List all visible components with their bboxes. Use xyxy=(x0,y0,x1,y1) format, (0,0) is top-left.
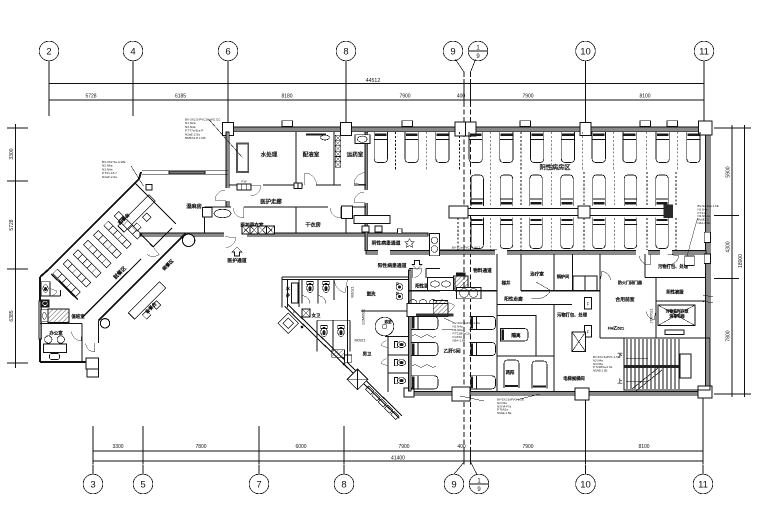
wall x334 xyxy=(333,132,335,185)
junction dots xyxy=(301,326,345,365)
sink block xyxy=(332,350,352,363)
svg-text:锅炉间: 锅炉间 xyxy=(557,273,570,280)
label waste pack 1 xyxy=(658,263,689,270)
cable tag hall xyxy=(435,245,497,249)
dim text 7800 xyxy=(726,330,732,341)
svg-text:物料通道: 物料通道 xyxy=(473,267,492,274)
label hepatitis ward xyxy=(443,348,460,355)
isolation room xyxy=(497,316,536,357)
grid bubble 11 top xyxy=(694,41,714,61)
segment dimension line bottom xyxy=(93,447,703,455)
canteen NE wall xyxy=(135,183,176,224)
wing west wall xyxy=(39,269,49,362)
door water treatment xyxy=(250,185,261,196)
svg-text:F: F xyxy=(587,302,590,307)
grid bubble 5 bottom xyxy=(133,465,153,494)
svg-text:5: 5 xyxy=(140,479,145,490)
door dispensing xyxy=(305,173,317,185)
dim text 5728 left xyxy=(9,219,15,230)
svg-text:400: 400 xyxy=(457,444,466,450)
room label medicine xyxy=(347,151,364,159)
nurse desk xyxy=(354,216,390,233)
room label staff corridor xyxy=(260,198,282,206)
male wc cubicles xyxy=(381,337,409,392)
dim text 7900 xyxy=(399,94,410,100)
door arc treatment xyxy=(532,282,551,299)
label material passage xyxy=(473,267,492,274)
svg-text:隔离: 隔离 xyxy=(511,332,521,339)
svg-text:医护通道: 医护通道 xyxy=(227,257,246,264)
wall x521 xyxy=(520,254,522,291)
svg-text:防火门闭门器: 防火门闭门器 xyxy=(618,279,642,285)
svg-text:10: 10 xyxy=(580,479,591,490)
svg-text:合用前室: 合用前室 xyxy=(615,296,634,303)
svg-text:N6AE-1.5E: N6AE-1.5E xyxy=(497,411,512,415)
service elevator x-box xyxy=(658,305,695,335)
wc cubicles north xyxy=(302,280,334,304)
label positive corridor xyxy=(504,296,523,303)
wall x296 lower xyxy=(295,207,297,233)
prep counter xyxy=(128,282,171,325)
wall pilaster 4 xyxy=(640,121,651,127)
svg-text:8180: 8180 xyxy=(281,94,292,100)
label door M0921 xyxy=(355,339,366,343)
label dining area xyxy=(111,264,128,281)
grid line 2 xyxy=(48,61,50,116)
dim text 6185 xyxy=(175,94,186,100)
exterior wall top xyxy=(223,127,712,132)
svg-text:BM5X4-P.J.CB: BM5X4-P.J.CB xyxy=(185,136,205,140)
grid bubble 2 top xyxy=(39,41,59,61)
dim text 18000 xyxy=(738,254,744,268)
svg-text:浴至: 浴至 xyxy=(384,319,392,324)
svg-text:电梯候梯间: 电梯候梯间 xyxy=(563,375,584,382)
column grid11 bottom xyxy=(698,386,712,398)
svg-text:JTM7021: JTM7021 xyxy=(650,309,654,324)
room label staff changing xyxy=(241,222,264,229)
flue diamond xyxy=(278,313,299,334)
grid line 1/9 dashed xyxy=(471,60,476,464)
wall box 1 xyxy=(704,232,710,242)
svg-text:值班室: 值班室 xyxy=(71,313,85,320)
double door positive corridor xyxy=(413,269,426,278)
svg-text:N5AB-1.5E: N5AB-1.5E xyxy=(593,369,608,373)
svg-text:M0921: M0921 xyxy=(355,339,366,343)
dim text 3300 bottom xyxy=(112,444,123,450)
grid bubble 1/9 top xyxy=(468,41,488,61)
grid bubble 9 bottom xyxy=(444,462,464,494)
label elevator model xyxy=(650,309,654,324)
office room xyxy=(40,324,82,363)
round column wing east xyxy=(182,234,194,246)
section top wall xyxy=(282,277,409,280)
right dimension segment line xyxy=(714,125,739,397)
corridor label staff passage xyxy=(225,237,247,265)
stair break line xyxy=(632,368,662,391)
shaft with F dampers xyxy=(573,276,597,337)
entry porch xyxy=(86,321,99,378)
wet room top wall xyxy=(142,171,228,175)
dim text 7900 b xyxy=(522,94,533,100)
column grid8 xyxy=(341,123,352,136)
svg-text:8: 8 xyxy=(341,479,346,490)
annotation note A xyxy=(185,118,242,158)
corridor wall y234 xyxy=(140,229,428,237)
wall y185 xyxy=(229,184,366,186)
svg-text:阴性被服: 阴性被服 xyxy=(666,289,684,296)
grid bubble 4 top xyxy=(123,41,143,61)
label male wc xyxy=(363,352,372,358)
door arc hepatitis xyxy=(440,299,455,314)
annotation note E xyxy=(442,318,480,343)
wall y304 xyxy=(497,304,572,306)
svg-text:FM乙521: FM乙521 xyxy=(608,325,625,331)
wall y291 xyxy=(409,290,600,292)
svg-text:运药室: 运药室 xyxy=(347,151,364,159)
svg-text:N2aP-2.6a: N2aP-2.6a xyxy=(102,175,117,179)
sink medicine room xyxy=(355,135,370,144)
room label wet room xyxy=(186,202,202,210)
grid bubble 8 top xyxy=(336,41,356,61)
dim text 400 bottom xyxy=(457,444,466,450)
louvre windows diagonal xyxy=(366,386,399,419)
svg-text:井: 井 xyxy=(286,292,290,299)
curtain lines rows 2-3 xyxy=(458,172,676,250)
svg-text:污物打包、处理: 污物打包、处理 xyxy=(658,263,689,270)
door hall west xyxy=(354,192,365,203)
svg-text:5728: 5728 xyxy=(9,219,15,230)
ward hall bottom wall xyxy=(366,250,706,255)
svg-text:3300: 3300 xyxy=(9,148,15,159)
svg-text:400: 400 xyxy=(457,94,466,100)
counter dispensing room xyxy=(306,134,326,136)
svg-text:9: 9 xyxy=(451,479,456,490)
bed row 1 xyxy=(374,132,700,163)
elevator 2 x-box xyxy=(572,332,586,352)
wall pilaster 2 xyxy=(402,121,413,127)
corridor label negative patients xyxy=(372,239,415,248)
hatched shaft xyxy=(454,276,468,290)
column grid6 xyxy=(223,123,234,136)
label F flue xyxy=(293,311,296,315)
svg-text:44512: 44512 xyxy=(366,78,381,84)
annotation note F xyxy=(593,355,620,373)
hepatitis beds xyxy=(411,316,496,389)
right dimension overall line xyxy=(739,125,751,397)
wall x600 xyxy=(600,254,624,338)
dim text 5728 xyxy=(85,94,96,100)
wall x497 xyxy=(496,254,498,391)
segment dimension line top xyxy=(49,79,704,105)
wc cubicles south xyxy=(317,320,350,351)
column grid9 xyxy=(455,122,476,136)
door medicine xyxy=(354,173,366,185)
svg-text:BV-1.2a-PVC14-WL2: BV-1.2a-PVC14-WL2 xyxy=(452,245,481,249)
dark shaft box xyxy=(302,309,310,317)
wall x346 drying room xyxy=(342,206,353,233)
mid partition band xyxy=(449,205,673,219)
canteen SW wall xyxy=(51,274,77,300)
svg-text:8100: 8100 xyxy=(638,444,649,450)
dining tables xyxy=(53,211,142,296)
svg-text:2: 2 xyxy=(46,46,51,57)
ward hall left wall xyxy=(365,132,368,251)
door arcs right rooms xyxy=(600,254,679,320)
equipment water treatment tank xyxy=(237,144,248,173)
svg-text:18000: 18000 xyxy=(738,254,744,268)
svg-text:阴性病患通道: 阴性病患通道 xyxy=(372,240,401,247)
svg-text:11: 11 xyxy=(699,46,709,57)
label waiting area xyxy=(161,257,176,272)
svg-text:6385: 6385 xyxy=(9,310,15,321)
grid line 9 dashed xyxy=(456,60,465,464)
column grid9 bottom xyxy=(452,387,470,401)
svg-text:消毒电梯: 消毒电梯 xyxy=(669,314,684,319)
waiting area divider xyxy=(140,234,153,247)
dim text 400 xyxy=(457,94,466,100)
grid line 10 xyxy=(585,61,587,124)
svg-text:阳性走廊: 阳性走廊 xyxy=(504,296,523,303)
left dimension line xyxy=(7,124,28,368)
dim text 6385 left xyxy=(9,310,15,321)
svg-text:污物打包、处理: 污物打包、处理 xyxy=(557,312,588,319)
sink dispensing room xyxy=(321,135,330,140)
svg-text:3300: 3300 xyxy=(112,444,123,450)
svg-text:阳性病患通道: 阳性病患通道 xyxy=(378,262,407,269)
grid line 6 xyxy=(227,61,229,124)
svg-text:医护走廊: 医护走廊 xyxy=(260,198,282,206)
curtain lines row 1 xyxy=(396,132,678,170)
wall pilaster 3 xyxy=(520,121,531,127)
svg-text:3: 3 xyxy=(90,479,95,490)
dim text 3300 left xyxy=(9,148,15,159)
sink changing room xyxy=(214,209,231,217)
wall y269 segment xyxy=(409,268,440,270)
svg-text:治疗室: 治疗室 xyxy=(530,271,544,278)
grid line 11 xyxy=(703,61,705,124)
bed row 3 xyxy=(471,218,668,249)
water well room xyxy=(286,280,299,307)
wall x645 top xyxy=(645,254,706,278)
duty room xyxy=(40,290,85,323)
dim text 7900 bottom xyxy=(398,444,409,450)
label door M1021 xyxy=(351,287,355,298)
svg-text:乙肝5间: 乙肝5间 xyxy=(443,348,460,355)
annotation note B xyxy=(102,160,144,186)
stair mid rail xyxy=(624,365,680,368)
label treatment room xyxy=(530,271,544,278)
stair treads xyxy=(627,339,679,389)
svg-text:N4A-1.5E: N4A-1.5E xyxy=(698,221,711,225)
svg-text:污物临时存放: 污物临时存放 xyxy=(666,309,689,314)
stair down label xyxy=(617,352,648,359)
wall x204 changing room xyxy=(203,208,213,233)
dim text 7900 bottom xyxy=(522,444,533,450)
wall y301 right xyxy=(656,278,706,339)
svg-text:配液室: 配液室 xyxy=(303,151,320,159)
svg-text:7: 7 xyxy=(256,479,261,490)
dim text 7800 bottom xyxy=(195,444,206,450)
dim text 8100 xyxy=(639,94,650,100)
wall x296 xyxy=(295,132,297,185)
grid bubble 6 top xyxy=(218,41,238,61)
column grid10 xyxy=(580,123,591,136)
waiting area SE wall xyxy=(99,234,186,321)
hepatitis room west wall xyxy=(409,270,412,391)
grid line 8 xyxy=(345,61,347,124)
svg-text:4300: 4300 xyxy=(726,241,732,252)
bottom extension lines xyxy=(93,398,703,465)
svg-text:7900: 7900 xyxy=(522,94,533,100)
svg-text:6000: 6000 xyxy=(295,444,306,450)
label door 12M1021 xyxy=(362,309,366,325)
grid bubble 1/9 bottom xyxy=(469,462,489,494)
exterior wall right xyxy=(706,126,711,398)
wing NW wall xyxy=(49,172,141,269)
door wet room xyxy=(215,190,226,201)
svg-text:盥洗: 盥洗 xyxy=(367,291,376,298)
room label water treatment xyxy=(261,151,278,159)
svg-text:10: 10 xyxy=(580,46,591,57)
svg-text:7800: 7800 xyxy=(726,330,732,341)
shower xyxy=(375,317,394,336)
electrical panel right wall xyxy=(685,218,698,265)
annotation note D xyxy=(460,394,540,415)
svg-text:8: 8 xyxy=(343,46,348,57)
label serving counter xyxy=(117,211,132,226)
stair up label xyxy=(617,377,648,385)
svg-text:4: 4 xyxy=(130,46,135,57)
annotation note C xyxy=(698,204,719,225)
column grid10 bottom xyxy=(575,388,589,400)
wc wing xyxy=(41,282,57,296)
dim text 8180 xyxy=(281,94,292,100)
svg-text:11: 11 xyxy=(698,479,708,490)
squiggle curtains xyxy=(412,335,436,367)
wall box 2 xyxy=(704,254,710,264)
door changing xyxy=(233,207,244,218)
grid bubble 10 bottom xyxy=(576,465,596,494)
wall x455 xyxy=(454,278,456,292)
wall water-treat left xyxy=(226,132,230,207)
svg-text:5900: 5900 xyxy=(726,166,732,177)
svg-text:阴性病房区: 阴性病房区 xyxy=(540,164,571,172)
label washing xyxy=(367,291,376,298)
bed row 2 xyxy=(471,175,668,206)
svg-text:7800: 7800 xyxy=(195,444,206,450)
svg-text:女卫: 女卫 xyxy=(312,312,321,319)
stairwell xyxy=(624,338,710,390)
door drying xyxy=(330,207,341,218)
diagonal SW wall xyxy=(285,304,403,419)
svg-text:干衣房: 干衣房 xyxy=(305,221,321,229)
dim text 8100 bottom xyxy=(638,444,649,450)
overall dimension line top 44512 xyxy=(49,78,704,88)
label stair shaft xyxy=(502,280,511,287)
column grid11 top xyxy=(699,121,713,135)
svg-text:F: F xyxy=(587,330,590,335)
round column wing entry xyxy=(100,319,109,328)
dim text 4300 xyxy=(726,241,732,252)
pass-through window 1 xyxy=(237,180,251,191)
svg-text:9: 9 xyxy=(450,46,455,57)
svg-text:N5A-1.6a: N5A-1.6a xyxy=(453,339,466,343)
label FM door xyxy=(608,325,625,331)
serving counter xyxy=(118,195,161,238)
grid line 4 xyxy=(132,61,134,116)
room label dispensing xyxy=(303,151,320,159)
wash basins xyxy=(396,283,403,300)
changing room positive xyxy=(415,283,433,290)
grid bubble 9 top xyxy=(443,41,463,61)
svg-text:7900: 7900 xyxy=(398,444,409,450)
svg-text:5728: 5728 xyxy=(85,94,96,100)
svg-text:M1021: M1021 xyxy=(351,287,355,298)
double positive room xyxy=(497,305,554,392)
grid bubble 10 top xyxy=(576,41,596,61)
label boiler xyxy=(557,273,570,280)
ward hall label xyxy=(540,164,571,172)
svg-text:梯井: 梯井 xyxy=(502,280,511,287)
wall x554 xyxy=(553,254,555,291)
label shared vestibule xyxy=(615,296,634,303)
svg-text:办公室: 办公室 xyxy=(49,330,63,337)
corridor label positive patients xyxy=(378,261,422,270)
smoke shaft x-box xyxy=(347,369,368,390)
equipment rack 6 boxes xyxy=(335,135,340,167)
grid bubble 8 bottom xyxy=(334,465,354,494)
corner box wet room xyxy=(146,185,152,190)
svg-text:7900: 7900 xyxy=(399,94,410,100)
svg-text:湿麻房: 湿麻房 xyxy=(186,202,202,210)
section left wall xyxy=(282,277,288,307)
toilet walls misc xyxy=(317,280,409,362)
dark fan box xyxy=(456,272,466,276)
wall y207 xyxy=(205,206,367,208)
column bottom-left end xyxy=(404,388,414,397)
svg-text:6: 6 xyxy=(225,46,230,57)
svg-text:两阳: 两阳 xyxy=(506,369,515,376)
wash counter xyxy=(428,278,454,291)
svg-text:7900: 7900 xyxy=(522,444,533,450)
grid bubble 3 bottom xyxy=(83,465,103,494)
svg-text:P.W: P.W xyxy=(241,180,246,184)
label negative linen xyxy=(666,289,684,296)
double sink xyxy=(457,288,482,299)
svg-text:41400: 41400 xyxy=(391,456,405,462)
label prep counter xyxy=(144,300,159,315)
pass-through window 2 xyxy=(294,183,302,188)
label elevator lobby xyxy=(563,375,584,382)
nurse counter hepatitis xyxy=(407,299,454,316)
label waste pack 2 xyxy=(557,312,588,319)
dim text 5900 xyxy=(726,166,732,177)
vent shaft double xyxy=(430,233,440,255)
wall x572 xyxy=(572,254,574,291)
svg-text:水处理: 水处理 xyxy=(261,151,278,159)
overall dimension line bottom 41400 xyxy=(93,456,703,462)
svg-text:上: 上 xyxy=(617,377,622,385)
grid bubble 7 bottom xyxy=(249,465,269,494)
exterior wall bottom xyxy=(410,392,712,396)
dim text 6000 bottom xyxy=(295,444,306,450)
canteen SE wall xyxy=(82,228,172,318)
room label drying room xyxy=(305,221,321,229)
label fire door xyxy=(618,279,642,285)
svg-text:6185: 6185 xyxy=(175,94,186,100)
floor drain box xyxy=(41,300,49,308)
wavy mark right wall xyxy=(703,295,713,303)
